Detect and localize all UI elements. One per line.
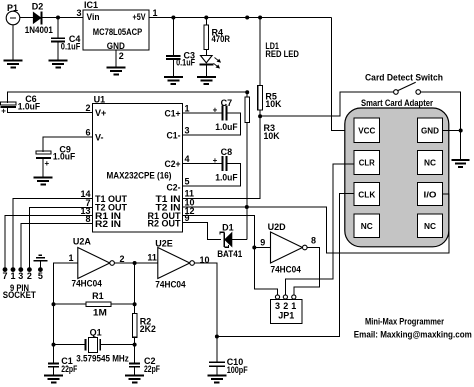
svg-text:NC: NC [424,222,436,231]
svg-text:NC: NC [424,159,436,168]
wire U1 pin1 to C7 [183,112,222,114]
svg-text:C8: C8 [221,147,233,157]
wire switch to GND node [421,92,461,131]
wire +5V rail [149,17,332,19]
adapter pad NC bottom right [417,214,442,238]
ground below GND pad [452,159,470,161]
svg-text:BAT41: BAT41 [217,249,242,259]
svg-text:P1: P1 [7,3,18,13]
svg-text:1: 1 [153,8,158,18]
wire U1 R2 OUT to D1 [183,223,222,240]
svg-text:3: 3 [185,125,190,135]
svg-text:10K: 10K [264,131,280,141]
wire R5 node to switch [260,92,394,116]
resistor R3 10K [246,92,248,97]
node R3 top junction [245,90,249,94]
jumper JP1 [271,299,302,323]
svg-text:3.579545 MHz: 3.579545 MHz [76,353,129,363]
svg-text:Card Detect Switch: Card Detect Switch [365,73,443,83]
wire U2D input [254,247,270,249]
svg-text:1.0uF: 1.0uF [53,152,76,162]
wire T2 IN net [183,206,247,208]
node U2D input junction [252,246,256,250]
wire U2A output down through R2 [134,263,136,314]
resistor R4 470R [205,18,207,25]
svg-text:9: 9 [260,237,265,247]
smart card adapter body [345,108,449,247]
svg-text:U2E: U2E [155,238,173,248]
svg-text:5: 5 [38,271,43,281]
wire C9 bottom to ground [42,158,44,177]
adapter pad I/O [417,183,442,206]
node R1 right junction [133,302,137,306]
ground below C10 [207,375,226,377]
svg-text:2: 2 [85,103,90,113]
capacitor C9 1.0uF [36,151,51,154]
wire C6 bottom to U1 V+ [7,107,92,112]
capacitor C7 1.0uF [221,105,223,120]
svg-text:1N4001: 1N4001 [25,25,53,35]
svg-text:C2+: C2+ [165,159,181,169]
op-amp U1 MAX232CPE box [93,104,183,233]
ground below C4 [49,60,68,62]
svg-text:Q1: Q1 [90,328,102,338]
wire GND pad to ground [443,130,461,132]
svg-text:D1: D1 [222,222,234,232]
wire U2E output to C10 node [194,263,217,337]
ground below IC1 [107,67,126,69]
wire JP1 pin 2 to CLR pad [285,164,354,295]
svg-text:CLK: CLK [358,190,375,199]
connector P1 [6,11,20,25]
ground below C9 [34,177,53,179]
wire D1 to T2 IN junction [232,239,247,241]
svg-text:C2-: C2- [167,182,181,192]
capacitor C10 100pF [216,337,218,363]
node C3 on +5V rail [171,16,175,20]
svg-text:Smart Card Adapter: Smart Card Adapter [361,98,433,108]
capacitor C1 22pF [48,363,59,365]
svg-text:8: 8 [311,235,316,245]
svg-text:NC: NC [361,222,373,231]
svg-text:JP1: JP1 [278,310,294,320]
adapter pad CLK [354,183,379,206]
svg-text:V-: V- [95,132,104,142]
svg-text:1: 1 [68,253,73,263]
svg-text:VCC: VCC [358,126,375,135]
svg-text:22pF: 22pF [144,364,160,374]
svg-text:1.0uF: 1.0uF [215,122,238,132]
wire U2A output to U2E input [114,262,157,264]
ground below LED [197,76,216,78]
node R4 on +5V rail [204,16,208,20]
node GND junction [459,129,463,133]
wire P1 to D2 [20,17,34,19]
svg-text:1: 1 [291,301,296,311]
wire C8 to U1 pin5 [183,163,241,186]
svg-text:0.1uF: 0.1uF [176,58,195,68]
adapter pad NC top right [417,150,442,174]
ground below C2 [125,375,144,377]
svg-text:RED LED: RED LED [265,49,299,59]
svg-text:+: + [1,106,6,115]
svg-text:Mini-Max Programmer: Mini-Max Programmer [365,316,444,326]
svg-text:2: 2 [283,301,288,311]
svg-text:C1-: C1- [167,130,181,140]
resistor R1 1M [54,303,86,305]
svg-text:D2: D2 [32,2,44,12]
node Q1 left junction [52,343,56,347]
svg-text:Vin: Vin [87,12,100,22]
svg-text:GND: GND [421,126,439,135]
node R1 left junction [52,302,56,306]
wire U1 R1 OUT to U2D input [183,216,278,295]
svg-text:10K: 10K [265,99,281,109]
adapter pad CLR [354,150,379,174]
svg-text:1.0uF: 1.0uF [18,101,41,111]
svg-text:+5V: +5V [133,12,146,22]
svg-text:U2A: U2A [73,237,92,247]
wire C6 top to R3 node [7,92,247,103]
wire +5V rail to VCC of adapter [332,18,354,131]
svg-text:C7: C7 [221,98,233,108]
wire R1 IN to socket pin 7 [5,216,93,268]
svg-text:1M: 1M [93,307,107,317]
svg-text:IC1: IC1 [84,0,98,10]
svg-text:R2 IN: R2 IN [95,219,121,229]
capacitor C3 0.1uF [172,18,174,56]
svg-text:MC78L05ACP: MC78L05ACP [93,27,143,37]
svg-text:I/O: I/O [424,190,437,199]
crystal Q1 3.579545 MHz [54,344,86,346]
svg-text:MAX232CPE (16): MAX232CPE (16) [107,170,172,180]
capacitor C4 0.1uF [57,18,59,39]
svg-text:100pF: 100pF [227,365,248,375]
node R5 on +5V rail [258,16,262,20]
svg-text:9: 9 [185,213,190,223]
LED LD1 [201,56,213,63]
ground below C1 [44,375,63,377]
node R5 bottom junction [258,114,262,118]
9 pin socket [3,267,8,272]
svg-text:7: 7 [2,271,7,281]
svg-text:GND: GND [107,41,125,51]
wire R2 IN to socket pin 3 [21,224,93,268]
svg-text:U2D: U2D [268,222,287,232]
svg-text:2K2: 2K2 [140,324,156,334]
capacitor C2 22pF [129,363,140,365]
svg-text:74HC04: 74HC04 [155,280,185,290]
svg-text:1.0uF: 1.0uF [215,173,238,183]
svg-text:R2 OUT: R2 OUT [148,218,181,228]
node T2 IN junction [245,205,249,209]
svg-text:3: 3 [76,8,81,18]
capacitor C8 1.0uF [221,156,223,171]
svg-text:11: 11 [147,253,157,263]
node C10 junction [215,335,219,339]
svg-text:6: 6 [85,128,90,138]
inverter U2E 74HC04 [158,248,190,279]
svg-text:2: 2 [27,271,32,281]
adapter pad NC bottom left [354,214,379,238]
svg-text:0.1uF: 0.1uF [61,41,81,51]
node C4 junction [56,16,60,20]
ground below P1 [12,25,14,61]
resistor R5 10K [259,18,261,86]
adapter pad GND [417,118,442,142]
wire T1 IN net [183,116,261,198]
svg-text:+: + [213,156,218,165]
svg-text:74HC04: 74HC04 [72,279,102,289]
svg-text:3: 3 [275,301,280,311]
wire T2 IN to I/O pad [247,194,449,253]
svg-text:5: 5 [185,177,190,187]
wire D2 to IC1 pin 3 [43,17,83,19]
svg-text:22pF: 22pF [61,364,77,374]
inverter U2A 74HC04 [78,248,110,279]
node Q1 right junction [133,343,137,347]
wire U2D output to JP1 pin 1 [294,248,320,296]
wire C10 node to CLK pad [217,193,354,336]
svg-text:470R: 470R [212,34,231,44]
svg-text:74HC04: 74HC04 [271,265,301,275]
svg-text:2: 2 [119,51,124,61]
wire T2 OUT to socket pin 2 [29,207,92,267]
diode D1 BAT41 schottky [225,233,232,247]
svg-text:R1: R1 [92,291,104,301]
inverter U2D 74HC04 [271,232,303,263]
svg-text:+: + [213,105,218,114]
node U2A output junction [133,261,137,265]
wire T1 OUT to socket pin 1 [13,199,93,268]
svg-text:+: + [45,159,50,168]
svg-text:V+: V+ [95,108,106,118]
svg-text:SOCKET: SOCKET [3,290,36,300]
node R3 on +5V rail [245,16,249,20]
capacitor C6 1.0uF [1,102,16,105]
adapter pad VCC [354,118,379,142]
wire C7 to U1 pin3 [183,113,241,135]
ground below C3 [164,76,183,78]
wire C9 top to U1 V- [43,137,92,152]
wire IC1 pin 2 to ground [115,50,117,68]
wire U2A input to oscillator [54,263,78,363]
svg-text:U1: U1 [94,95,106,105]
svg-text:1: 1 [185,103,190,113]
resistor R2 2K2 [132,314,137,338]
card detect switch [394,90,399,95]
ground above socket pin 5 [33,260,47,262]
wire U1 pin4 to C8 [183,162,222,164]
svg-text:CLR: CLR [359,159,375,168]
svg-text:Email: Maxking@maxking.com: Email: Maxking@maxking.com [354,330,472,340]
svg-text:1: 1 [10,271,15,281]
regulator IC1 MC78L05ACP [83,10,149,50]
svg-text:3: 3 [18,271,23,281]
svg-text:C1+: C1+ [165,108,181,118]
diode D2 1N4001 [33,12,41,23]
svg-text:4: 4 [185,154,190,164]
